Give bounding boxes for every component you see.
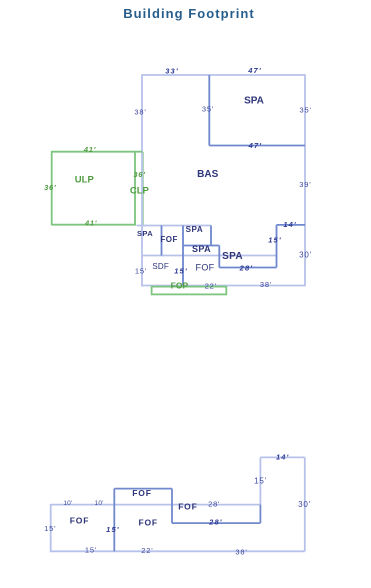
svg-text:ULP: ULP bbox=[75, 174, 95, 185]
svg-text:10': 10' bbox=[95, 500, 104, 507]
FOF2 outline left wall 15' bbox=[50, 504, 52, 551]
SPA top box bottom wall 47' bbox=[209, 145, 305, 147]
svg-text:FOF: FOF bbox=[138, 518, 157, 528]
svg-text:SPA: SPA bbox=[186, 225, 204, 234]
svg-text:SPA: SPA bbox=[222, 251, 243, 262]
svg-text:15': 15' bbox=[174, 267, 187, 276]
svg-text:38': 38' bbox=[260, 280, 272, 289]
ULP box bottom wall 41' bbox=[52, 224, 136, 226]
ULP box top wall 41' (extends over CLP) bbox=[52, 151, 143, 153]
svg-text:22': 22' bbox=[205, 282, 217, 291]
FOF annex bottom wall y=523 28' bbox=[172, 522, 260, 524]
svg-text:FOF: FOF bbox=[160, 235, 178, 244]
svg-text:BAS: BAS bbox=[197, 169, 218, 180]
svg-text:FOF: FOF bbox=[178, 501, 197, 511]
ULP box right wall / CLP left wall bbox=[134, 152, 136, 226]
svg-text:38': 38' bbox=[235, 548, 247, 557]
FOF2 step wall x=260 15' bbox=[259, 457, 261, 504]
BAS outline top wall 33'+47' bbox=[142, 74, 305, 76]
svg-text:33': 33' bbox=[165, 66, 178, 75]
BAS interior wall y=225 bbox=[137, 225, 212, 227]
svg-text:15': 15' bbox=[254, 477, 267, 486]
SPA top box left wall bbox=[208, 75, 210, 146]
svg-text:15': 15' bbox=[106, 525, 119, 534]
FOF annex wall x=172 bbox=[171, 489, 173, 523]
svg-text:28': 28' bbox=[208, 518, 222, 527]
FOP box bbox=[152, 287, 227, 295]
FOF annex wall x=114 bbox=[113, 489, 115, 552]
svg-text:FOP: FOP bbox=[171, 281, 189, 291]
FOF2 outline top wall 10'+10'+28' bbox=[51, 504, 261, 506]
svg-text:15': 15' bbox=[44, 524, 56, 533]
svg-text:15': 15' bbox=[268, 236, 281, 245]
svg-text:15': 15' bbox=[135, 267, 147, 276]
svg-text:15': 15' bbox=[85, 545, 97, 554]
svg-text:SPA: SPA bbox=[137, 229, 153, 238]
svg-text:41': 41' bbox=[83, 145, 96, 154]
svg-text:SPA: SPA bbox=[192, 244, 211, 254]
svg-text:39': 39' bbox=[299, 180, 311, 189]
svg-text:CLP: CLP bbox=[130, 185, 150, 196]
svg-text:36': 36' bbox=[44, 183, 56, 192]
SPA wall y=245.5 bbox=[183, 245, 219, 247]
svg-text:28': 28' bbox=[208, 500, 220, 509]
svg-text:47': 47' bbox=[248, 141, 262, 150]
FOF2 outline bottom wall bbox=[50, 550, 305, 552]
svg-text:30': 30' bbox=[298, 500, 311, 509]
SPA wall x=219.3 bbox=[218, 246, 220, 268]
svg-text:FOF: FOF bbox=[196, 263, 215, 273]
FOF2 outline top step wall 14' bbox=[260, 456, 304, 458]
SPA box2 right wall x=211 bbox=[210, 226, 212, 246]
FOF annex wall x=260 lower bbox=[259, 505, 261, 523]
svg-text:30': 30' bbox=[299, 251, 312, 260]
FOF annex top wall y=488.6 bbox=[114, 488, 172, 490]
svg-text:SDF: SDF bbox=[152, 262, 169, 271]
svg-text:14': 14' bbox=[283, 220, 296, 229]
svg-text:35': 35' bbox=[202, 105, 214, 114]
BAS interior wall y=255 bbox=[142, 255, 277, 257]
svg-text:47': 47' bbox=[247, 66, 261, 75]
BAS outline bottom wall bbox=[141, 285, 305, 287]
svg-text:41': 41' bbox=[84, 219, 97, 228]
svg-text:FOF: FOF bbox=[132, 488, 151, 498]
svg-text:SPA: SPA bbox=[244, 96, 264, 107]
svg-text:22': 22' bbox=[141, 546, 153, 555]
svg-text:36': 36' bbox=[133, 170, 145, 179]
svg-text:35': 35' bbox=[300, 106, 312, 115]
svg-text:38': 38' bbox=[134, 108, 146, 117]
svg-text:Building Footprint: Building Footprint bbox=[123, 6, 255, 21]
CLP right wall green under BAS left bbox=[142, 152, 144, 225]
title Building Footprint bbox=[123, 6, 255, 21]
ULP box left wall 36' bbox=[51, 151, 53, 225]
SPA small box wall x=161.5 bbox=[161, 226, 163, 256]
SPA wall y=267.5 28' bbox=[219, 267, 276, 269]
svg-text:FOF: FOF bbox=[70, 516, 89, 526]
svg-text:28': 28' bbox=[239, 264, 253, 273]
SPA step wall y=225 14' bbox=[277, 224, 306, 226]
BAS outline right wall bbox=[304, 74, 306, 286]
svg-text:10': 10' bbox=[63, 500, 72, 507]
SPA step wall x=276.5 15' bbox=[276, 225, 278, 268]
FOF2 outline right wall 30' bbox=[304, 457, 306, 551]
svg-text:14': 14' bbox=[276, 453, 289, 462]
BAS outline left wall bbox=[141, 74, 143, 286]
FOF/SDF wall x=183 bbox=[182, 226, 184, 286]
